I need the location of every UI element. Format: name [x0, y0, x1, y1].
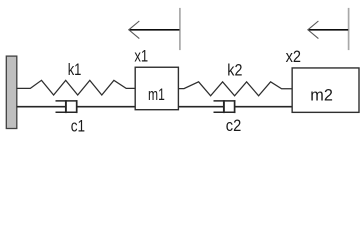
label k2 [227, 62, 242, 80]
spring k1 [17, 80, 135, 95]
svg-text:c2: c2 [226, 117, 242, 135]
label m2 [310, 87, 333, 105]
reference line for x1 [179, 8, 181, 50]
label k1 [68, 61, 82, 79]
spring k2 [178, 82, 292, 96]
arrow x1 [129, 21, 180, 39]
svg-text:x1: x1 [134, 48, 148, 66]
label x1 [134, 48, 148, 66]
damper c2 left rod [178, 106, 224, 108]
svg-text:k1: k1 [68, 61, 82, 79]
svg-text:x2: x2 [286, 48, 301, 66]
arrow x2 [308, 21, 348, 39]
label c2 [226, 117, 242, 135]
reference line for x2 [348, 8, 350, 50]
wall (fixed support) [6, 56, 16, 128]
damper c2 body [214, 100, 236, 113]
label x2 [286, 48, 301, 66]
damper c1 right rod [77, 106, 136, 108]
damper c1 left rod [17, 106, 66, 108]
damper c2 right rod [235, 106, 293, 108]
svg-text:k2: k2 [227, 62, 242, 80]
svg-text:m1: m1 [148, 86, 165, 104]
svg-text:m2: m2 [310, 87, 333, 105]
label m1 [148, 86, 165, 104]
mass m1 [135, 67, 178, 109]
label c1 [71, 118, 85, 136]
mass m2 [292, 68, 359, 112]
svg-text:c1: c1 [71, 118, 85, 136]
damper c1 body [56, 100, 78, 113]
